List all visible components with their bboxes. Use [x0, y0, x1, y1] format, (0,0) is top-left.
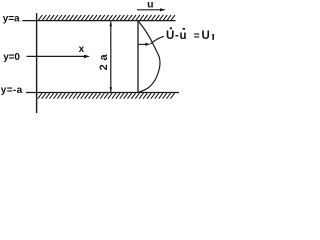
- 2a dimension line: [110, 21, 112, 92]
- bottom wall hatching: [38, 93, 175, 99]
- velocity profile vertical line: [137, 21, 139, 93]
- subscript bar (cut at edge): [212, 34, 214, 40]
- u arrow: [137, 9, 162, 11]
- svg-text:y=0: y=0: [3, 52, 20, 63]
- velocity profile curve: [138, 21, 160, 93]
- profile arrow shaft: [139, 43, 147, 45]
- u arrowhead: [160, 8, 166, 11]
- svg-text:U-u: U-u: [166, 30, 187, 42]
- 2a dimension bottom arrowhead: [110, 87, 113, 92]
- svg-text:x: x: [79, 44, 85, 55]
- svg-text:y=-a: y=-a: [1, 85, 23, 96]
- bottom wall line: [26, 92, 179, 94]
- x axis arrowhead: [84, 55, 90, 59]
- top wall hatching: [38, 15, 175, 21]
- leader line from label to arrow tip: [150, 36, 164, 44]
- top wall line: [22, 20, 175, 22]
- dot accent over u: [183, 28, 185, 30]
- svg-text:u: u: [147, 0, 153, 11]
- x axis line: [27, 55, 87, 57]
- profile arrowhead: [145, 43, 150, 46]
- svg-text:=: =: [194, 31, 200, 42]
- dot accent over U: [170, 27, 172, 29]
- svg-text:U: U: [202, 30, 210, 42]
- svg-text:2a: 2a: [98, 51, 110, 71]
- 2a dimension top arrowhead: [110, 21, 113, 26]
- svg-text:y=a: y=a: [3, 13, 20, 24]
- y axis vertical line: [36, 13, 38, 113]
